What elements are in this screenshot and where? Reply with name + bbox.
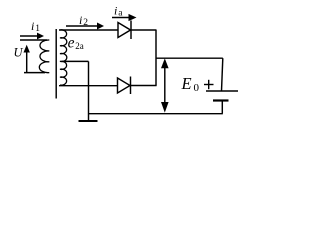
wire D1 to node (131, 29, 157, 31)
wire primary top (20, 39, 47, 41)
ground bar (79, 120, 98, 122)
svg-text:0: 0 (194, 82, 200, 94)
battery E0 (206, 91, 238, 101)
wire primary bottom (24, 72, 45, 74)
wire battery top (222, 58, 223, 91)
svg-text:E: E (181, 74, 192, 93)
wire center tap (62, 60, 89, 62)
current arrow i1 (20, 33, 44, 40)
svg-text:i: i (31, 19, 34, 33)
battery E0 plus sign (204, 80, 214, 89)
wire D2 to node (131, 85, 157, 87)
wire right vertical (155, 30, 157, 86)
svg-text:e: e (68, 35, 75, 52)
svg-text:i: i (79, 13, 82, 27)
voltage arrow E0 (161, 58, 169, 112)
svg-text:1: 1 (35, 24, 40, 34)
svg-text:U: U (14, 46, 24, 60)
wire secondary top (59, 29, 118, 31)
transformer core (55, 29, 57, 99)
inductor secondary winding (60, 30, 67, 85)
wire battery bottom (221, 101, 223, 114)
source arrow U (24, 45, 30, 72)
current arrow i2 (66, 23, 104, 30)
wire secondary bottom (59, 85, 118, 87)
current arrow ia (112, 14, 137, 21)
svg-text:2a: 2a (75, 41, 84, 51)
wire center tap vertical (88, 61, 90, 120)
svg-text:i: i (114, 4, 117, 18)
wire bottom rail (89, 113, 223, 115)
diode D2 (118, 77, 131, 95)
diode D1 (118, 21, 131, 40)
inductor primary winding (39, 40, 49, 73)
wire node top (156, 57, 223, 59)
